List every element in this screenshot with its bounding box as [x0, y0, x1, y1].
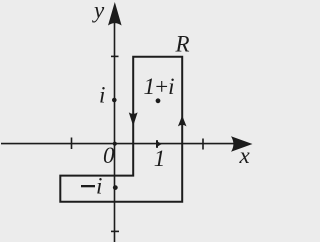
tick -1 on x-axis — [71, 138, 73, 150]
origin dot — [113, 142, 117, 146]
tick -2i on y-axis — [111, 230, 119, 232]
svg-text:x: x — [239, 143, 251, 168]
marker at 1 on x-axis (tick with right arrowhead) — [156, 140, 158, 148]
dot at -i — [113, 185, 118, 190]
up arrow on right edge of contour — [178, 116, 187, 127]
svg-text:1+i: 1+i — [144, 74, 175, 99]
svg-text:i: i — [96, 174, 102, 199]
dot at i — [112, 98, 117, 103]
y-axis — [114, 22, 116, 242]
tick 2 on x-axis — [202, 139, 204, 150]
tick 2i on y-axis — [111, 55, 119, 57]
x-axis — [1, 143, 234, 145]
svg-text:R: R — [175, 32, 190, 57]
down arrow on left edge of contour — [129, 112, 138, 126]
y-axis arrowhead — [108, 2, 122, 26]
svg-text:i: i — [99, 83, 105, 108]
svg-text:1: 1 — [154, 146, 166, 171]
contour R (closed L-shaped path) — [60, 57, 182, 202]
svg-text:0: 0 — [103, 143, 115, 168]
x-axis arrowhead — [231, 136, 253, 152]
svg-text:y: y — [92, 0, 105, 23]
dot at 1+i — [156, 98, 161, 103]
-i label — [81, 185, 95, 187]
